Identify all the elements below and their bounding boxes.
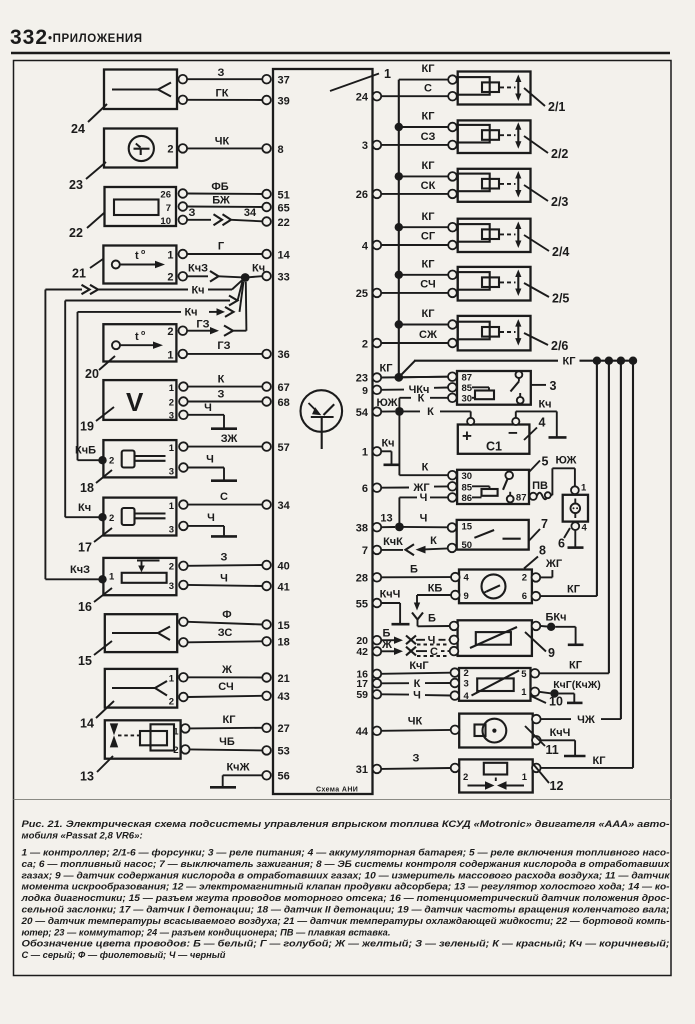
svg-text:Б: Б <box>428 613 436 625</box>
svg-text:1: 1 <box>167 249 173 261</box>
svg-text:Рис. 21. Электрическая схема п: Рис. 21. Электрическая схема подсистемы … <box>22 819 670 830</box>
svg-text:3: 3 <box>464 679 469 690</box>
label 5 with leader <box>530 455 549 472</box>
svg-text:С1: С1 <box>486 440 502 454</box>
svg-text:К: К <box>418 393 425 405</box>
engine harness connector 15 box <box>105 614 177 652</box>
svg-text:59: 59 <box>356 689 368 701</box>
svg-text:КчЗ: КчЗ <box>70 564 90 576</box>
wire 19 pin2 to U1 pin68, net З <box>188 389 262 402</box>
wire bus to 2/4 upper pin, net КГ <box>399 211 448 227</box>
ref 23 with leader <box>69 162 106 192</box>
svg-text:19: 19 <box>80 420 94 434</box>
svg-text:Кч: Кч <box>191 284 204 296</box>
ref 17 with leader <box>78 528 112 555</box>
svg-text:6: 6 <box>362 483 368 495</box>
svg-text:2: 2 <box>173 745 178 756</box>
label 3 with leader <box>531 379 557 393</box>
19 pins <box>179 382 188 419</box>
svg-text:1: 1 <box>169 501 175 512</box>
svg-text:1: 1 <box>581 483 587 494</box>
svg-text:28: 28 <box>356 573 368 585</box>
ref 20 with leader <box>85 356 115 381</box>
svg-text:24: 24 <box>71 122 85 136</box>
svg-text:37: 37 <box>278 75 290 87</box>
wire bus to 2/5 upper pin, net КГ <box>399 259 448 275</box>
svg-text:18: 18 <box>278 637 290 649</box>
svg-text:16: 16 <box>78 600 92 614</box>
svg-text:+: + <box>462 427 472 446</box>
svg-text:33: 33 <box>278 271 290 283</box>
wire node to КГ rail riser <box>399 361 415 378</box>
wire bus to 2/2 upper pin, net КГ <box>399 111 448 128</box>
15 pins <box>179 618 188 647</box>
svg-text:14: 14 <box>80 717 94 731</box>
svg-text:Ф: Ф <box>222 609 231 621</box>
svg-text:Ч: Ч <box>413 689 421 701</box>
svg-text:КГ: КГ <box>422 111 436 123</box>
16 right pins <box>179 562 188 590</box>
wire 15 to U1 pin15, net Ф <box>188 609 262 625</box>
wire 19 pin3 to ground, net Ч <box>188 402 224 428</box>
svg-text:Кч: Кч <box>381 438 394 450</box>
svg-text:2: 2 <box>464 668 469 679</box>
svg-text:ГЗ: ГЗ <box>217 340 230 352</box>
page header <box>10 26 670 53</box>
wire 14 pin2 to U1 pin43, net СЧ <box>188 681 262 697</box>
svg-text:СЖ: СЖ <box>419 329 437 341</box>
label 4 with leader <box>524 416 546 441</box>
transistor symbol inside controller <box>301 390 343 449</box>
svg-text:2: 2 <box>109 456 114 467</box>
label 2/5 with leader <box>524 283 569 306</box>
17 right pins <box>179 500 188 530</box>
svg-text:2: 2 <box>169 696 174 707</box>
svg-text:7: 7 <box>362 545 368 557</box>
svg-text:2: 2 <box>169 562 174 573</box>
wire U1 pin25 to 2/5 lower pin, net СЧ <box>381 279 448 293</box>
air flow sensor 10 box <box>451 668 540 702</box>
svg-text:КГ: КГ <box>422 259 436 271</box>
on-board computer 22 box <box>105 187 177 227</box>
wire U1 pin20 to sensor9, net Б/Ч crossover <box>381 628 450 647</box>
wire unit8 pin2 stub, net ЖГ <box>540 558 563 577</box>
svg-text:3: 3 <box>362 140 368 152</box>
svg-text:З: З <box>189 207 196 219</box>
wire relay5 pin86 to node 13, net Ч <box>399 492 448 523</box>
svg-text:1: 1 <box>522 772 528 783</box>
wire U1 pin55 to ground, net КчЧ <box>380 589 401 624</box>
svg-text:Г: Г <box>218 241 225 253</box>
ground for pump <box>568 546 584 549</box>
svg-text:56: 56 <box>278 771 290 783</box>
svg-text:27: 27 <box>278 723 290 735</box>
svg-text:Ч: Ч <box>206 454 214 466</box>
label 10 with leader <box>531 695 563 709</box>
junction dot bus/2-4 <box>395 223 403 231</box>
node КчБ at 18 pin2 <box>75 445 107 465</box>
wire 17 pin1 to U1 pin34, net С <box>188 491 262 505</box>
svg-text:лодка диагностики; 15 — разъем: лодка диагностики; 15 — разъем жгута про… <box>20 893 669 903</box>
svg-text:21: 21 <box>278 673 290 685</box>
svg-text:41: 41 <box>278 581 290 593</box>
label 11 with leader <box>525 726 559 757</box>
wire 24 pin2 to U1 pin39, net ГК <box>188 88 263 101</box>
svg-text:СЧ: СЧ <box>420 279 435 291</box>
injector 2/3 <box>448 169 530 202</box>
svg-text:Кч: Кч <box>184 307 197 319</box>
svg-text:КГ: КГ <box>569 660 583 672</box>
svg-text:9: 9 <box>464 591 469 602</box>
injector supply bus КГ vertical <box>398 80 400 378</box>
svg-text:V: V <box>126 387 144 417</box>
wire U1 pin42 to sensor9, net Ж/С crossover <box>381 639 450 658</box>
wire bus to 2/1 upper pin, net КГ <box>399 63 448 80</box>
ignition module 23 box <box>104 129 177 168</box>
svg-text:ЗС: ЗС <box>218 627 233 639</box>
ref 19 with leader <box>80 407 114 434</box>
svg-text:КГ: КГ <box>422 160 436 172</box>
svg-text:85: 85 <box>462 482 473 493</box>
junction dot bus/2-3 <box>395 172 403 180</box>
svg-text:1 — контроллер; 2/1-6 — форсун: 1 — контроллер; 2/1-6 — форсунки; 3 — ре… <box>22 848 670 858</box>
svg-text:са; 6 — топливный насос; 7 — в: са; 6 — топливный насос; 7 — выключатель… <box>22 859 671 869</box>
bus riser A to unit 8 <box>596 361 598 596</box>
svg-text:БКч: БКч <box>545 612 566 624</box>
wire 22 pin10 to U1 pin22, net 3, connector 34 <box>188 207 263 225</box>
svg-text:ЗЖ: ЗЖ <box>221 433 238 445</box>
svg-text:5: 5 <box>521 669 527 680</box>
purge valve 12 box <box>451 759 541 792</box>
svg-text:1: 1 <box>169 443 175 454</box>
ground for sensor10 <box>567 702 583 705</box>
wire U1 pin31 to valve12, net З <box>381 753 451 769</box>
oxygen control unit 8 box <box>451 570 540 604</box>
controller label 1 with leader <box>330 67 391 91</box>
svg-text:67: 67 <box>278 382 290 394</box>
svg-text:КГ: КГ <box>563 356 577 368</box>
svg-text:2: 2 <box>167 144 173 156</box>
svg-text:СГ: СГ <box>421 231 436 243</box>
svg-text:Б: Б <box>410 564 418 576</box>
crankshaft sensor 19 box <box>103 380 176 422</box>
svg-text:2: 2 <box>167 271 173 283</box>
svg-text:10: 10 <box>160 216 171 227</box>
wire U1 pin56 to ground, net КчЖ <box>223 762 262 787</box>
svg-text:ГК: ГК <box>216 88 229 100</box>
svg-text:С: С <box>424 83 432 95</box>
svg-text:42: 42 <box>356 646 368 658</box>
13 pins <box>181 724 190 754</box>
svg-text:КчЧ: КчЧ <box>380 589 401 601</box>
svg-text:ЖГ: ЖГ <box>545 558 563 570</box>
wire U1 pin24 to 2/1 lower pin, net С <box>381 83 448 97</box>
svg-text:З: З <box>218 67 225 79</box>
svg-text:2/4: 2/4 <box>552 245 569 259</box>
coolant temp sensor 21 box <box>103 246 176 284</box>
svg-text:3: 3 <box>169 581 174 592</box>
svg-text:Кч: Кч <box>78 502 91 514</box>
wire unit8 pin6 to bus riser A, net КГ <box>540 584 597 597</box>
svg-text:СЧ: СЧ <box>218 681 233 693</box>
knock sensor 18 box <box>103 440 176 477</box>
svg-text:86: 86 <box>462 493 473 504</box>
svg-text:30: 30 <box>462 471 473 482</box>
svg-text:Ч: Ч <box>420 492 428 504</box>
svg-text:53: 53 <box>278 746 290 758</box>
wire node to relay3 pin87 <box>399 376 448 379</box>
ref 13 with leader <box>80 756 113 784</box>
svg-text:1: 1 <box>521 687 527 698</box>
wire 13 pin2 to U1 pin53, net ЧБ <box>190 736 262 750</box>
svg-text:44: 44 <box>356 726 369 738</box>
label 12 with leader <box>534 765 563 793</box>
svg-text:1: 1 <box>362 447 368 459</box>
fuse ПВ symbol <box>537 492 551 499</box>
wire 14 pin1 to U1 pin21, net Ж <box>188 664 262 678</box>
wire U1 pin2 to 2/6 lower pin, net СЖ <box>381 329 448 343</box>
svg-text:4: 4 <box>464 691 470 702</box>
fuel pump 6 <box>563 483 588 534</box>
svg-text:6: 6 <box>522 591 527 602</box>
svg-text:85: 85 <box>462 383 473 394</box>
caption title <box>22 819 670 842</box>
svg-text:36: 36 <box>278 349 290 361</box>
svg-text:22: 22 <box>278 217 290 229</box>
svg-text:1: 1 <box>169 673 175 684</box>
ground for sensor11 <box>564 755 586 758</box>
svg-text:Ч: Ч <box>207 512 215 524</box>
svg-text:ЧК: ЧК <box>408 716 423 728</box>
bus riser B to sensor 10 <box>608 361 610 674</box>
wire U1 pin44 to sensor11, net ЧК <box>381 716 451 731</box>
svg-text:18: 18 <box>80 481 94 495</box>
injector 2/2 <box>448 120 530 153</box>
svg-text:ПВ: ПВ <box>532 480 548 492</box>
injector 2/6 <box>448 316 530 351</box>
svg-text:Ж: Ж <box>221 664 232 676</box>
caption list <box>20 848 670 961</box>
svg-text:момента искрообразования; 12 —: момента искрообразования; 12 — электрома… <box>22 882 670 892</box>
svg-text:2: 2 <box>169 398 174 409</box>
ignition switch 7 box <box>448 520 529 552</box>
23 pin <box>179 144 188 153</box>
oxygen sensor 9 box <box>450 620 541 656</box>
ref 24 with leader <box>71 104 107 136</box>
node КчЗ at 16 pin1 <box>70 564 107 584</box>
svg-text:2: 2 <box>109 513 114 524</box>
svg-text:КГ: КГ <box>380 363 394 375</box>
svg-text:СК: СК <box>421 180 436 192</box>
wire unit8 pin9, net КБ with arrow <box>414 583 451 611</box>
svg-text:3: 3 <box>550 379 557 393</box>
wire 22 pin26 to U1 pin51, net ФБ <box>188 181 263 194</box>
svg-text:КчБ: КчБ <box>75 445 96 457</box>
divider line above caption <box>14 799 672 801</box>
svg-text:3: 3 <box>169 467 174 478</box>
wire U1 pin17 to sensor10 pin3, net К <box>381 678 450 690</box>
wire node ЮЖ up to relay3 pin30, net К <box>399 393 448 412</box>
svg-text:З: З <box>221 552 228 564</box>
label 2/4 with leader <box>524 235 569 259</box>
svg-text:30: 30 <box>462 394 473 405</box>
svg-text:24: 24 <box>356 92 369 104</box>
ground for БКч <box>568 643 584 646</box>
svg-text:31: 31 <box>356 764 368 776</box>
svg-text:o: o <box>141 330 145 337</box>
svg-text:23: 23 <box>356 373 368 385</box>
svg-text:54: 54 <box>356 407 369 419</box>
14 pins <box>179 673 188 701</box>
ref 14 with leader <box>80 701 114 731</box>
svg-text:14: 14 <box>278 249 291 261</box>
wire 20 pin1 to U1 pin36, net ГЗ <box>188 340 263 354</box>
wire U1 pin54 to node ЮЖ <box>381 410 395 412</box>
ground for 19 <box>211 427 237 430</box>
svg-text:КГ: КГ <box>422 308 436 320</box>
svg-text:С — серый; Ф — фиолетовый; Ч —: С — серый; Ф — фиолетовый; Ч — черный <box>22 950 226 960</box>
ground for pin 56 <box>210 786 236 789</box>
junction dot bus/2-6 <box>395 320 403 328</box>
svg-text:4: 4 <box>539 416 546 430</box>
wire U1 pin3 to 2/2 lower pin, net СЗ <box>381 131 448 145</box>
label 8 with leader <box>524 544 546 569</box>
wire 16 pin3 to U1 pin41, net Ч <box>188 573 262 587</box>
svg-text:2/3: 2/3 <box>551 195 568 209</box>
svg-text:КчЧ: КчЧ <box>550 727 571 739</box>
svg-text:332: 332 <box>10 26 48 49</box>
svg-text:55: 55 <box>356 598 368 610</box>
bus riser D to valve 12 <box>632 361 634 768</box>
svg-text:15: 15 <box>462 522 473 533</box>
ground for pin 1 <box>384 463 401 466</box>
svg-text:ЮЖ: ЮЖ <box>376 397 397 409</box>
svg-text:К: К <box>430 535 437 547</box>
svg-text:3: 3 <box>169 525 174 536</box>
svg-text:КчГ(КчЖ): КчГ(КчЖ) <box>553 679 600 691</box>
wire 13 pin1 to U1 pin27, net КГ <box>190 714 262 728</box>
svg-text:2/2: 2/2 <box>551 147 568 161</box>
wire node Кч fan line to sensor 16, net Кч <box>45 280 242 579</box>
wire 21 pin1 to U1 pin14, net Г <box>188 241 263 255</box>
wire sensor10 pin1 to ground, net КчГ(КчЖ) <box>539 679 601 702</box>
svg-text:o: o <box>141 249 145 256</box>
22 pins <box>179 189 188 224</box>
svg-text:87: 87 <box>516 492 527 503</box>
svg-text:З: З <box>218 389 225 401</box>
wire node Кч to U1 pin33 <box>250 276 263 277</box>
wire sensor11 top to bus riser C, net ЧЖ <box>541 714 621 726</box>
injector 2/5 <box>448 267 530 301</box>
wire 24 pin1 to U1 pin37, net 3 <box>188 67 263 79</box>
svg-text:Ч: Ч <box>204 402 212 414</box>
ground for pin 55 <box>392 623 410 626</box>
label 7 with leader <box>529 517 548 541</box>
svg-text:1: 1 <box>169 383 175 394</box>
connector X24 (air conditioner) box <box>104 70 177 110</box>
throttle position sensor 16 box <box>103 558 176 595</box>
svg-text:КГ: КГ <box>223 714 237 726</box>
svg-text:51: 51 <box>278 189 290 201</box>
svg-text:КГ: КГ <box>422 63 436 75</box>
svg-text:11: 11 <box>546 743 559 757</box>
svg-text:КГ: КГ <box>422 211 436 223</box>
main relay 3 box <box>448 371 531 405</box>
injector 2/4 <box>448 219 530 252</box>
ground for 18 <box>211 479 237 482</box>
node 23/КГ junction dot <box>394 373 403 382</box>
svg-text:ЧК: ЧК <box>215 136 230 148</box>
wire node Кч to air temp sensor 20 pin2, net ГЗ <box>188 282 247 336</box>
svg-text:7: 7 <box>166 203 171 214</box>
wire battery minus to ground, net Кч <box>516 399 557 437</box>
label 2/6 with leader <box>524 333 568 353</box>
wire U1 pin38 to switch 7 pin15, net Ч <box>381 513 448 528</box>
connector fork to sensor 9, net Б <box>412 613 450 627</box>
svg-text:6: 6 <box>558 537 565 551</box>
fuel pump relay 5 box <box>448 470 537 504</box>
wire node ЮЖ down to relay5 pin30, net К <box>399 411 448 475</box>
wire U1 pin7 to switch 7 pin50, net КчК / К <box>381 535 448 555</box>
svg-text:Кч: Кч <box>538 399 551 411</box>
svg-text:ютер; 23 — коммутатор; 24 — ра: ютер; 23 — коммутатор; 24 — разъем конди… <box>22 927 391 937</box>
svg-text:сельной заслонки; 17 — датчик: сельной заслонки; 17 — датчик I детонаци… <box>22 904 670 914</box>
svg-text:газах; 9 — датчик содержания к: газах; 9 — датчик содержания кислорода в… <box>22 870 671 880</box>
wire 23 pin2 to U1 pin8, net ЧК <box>188 136 263 149</box>
X24 pins <box>179 75 188 104</box>
svg-text:2/6: 2/6 <box>551 339 568 353</box>
controller U1 (1) box <box>273 69 373 794</box>
junction dot bus/2-5 <box>395 271 403 279</box>
svg-text:20: 20 <box>85 367 99 381</box>
svg-text:8: 8 <box>278 144 284 156</box>
wire 17 pin3 to ground, net Ч <box>188 512 224 536</box>
wire U1 pin28 to unit8 pin4, net Б <box>381 564 451 578</box>
svg-text:9: 9 <box>362 385 368 397</box>
knock sensor 17 box <box>103 498 176 536</box>
wire U1 pin6 to relay5 pin85, net ЖГ <box>381 482 448 494</box>
svg-text:•ПРИЛОЖЕНИЯ: •ПРИЛОЖЕНИЯ <box>48 33 143 45</box>
20 pins <box>179 326 188 358</box>
bus riser C to sensor 11 <box>620 361 622 719</box>
wire 18 pin3 to ground, net Ч <box>188 454 224 481</box>
svg-text:38: 38 <box>356 523 368 535</box>
svg-text:мобиля «Passat 2,8 VR6»:: мобиля «Passat 2,8 VR6»: <box>22 831 143 842</box>
diagnostic connector 14 box <box>105 669 177 708</box>
wire bus to 2/6 upper pin, net КГ <box>399 308 448 325</box>
svg-text:ЧБ: ЧБ <box>219 736 235 748</box>
ref 22 with leader <box>69 213 104 240</box>
label 2/2 with leader <box>524 136 568 161</box>
ignition timing sensor 11 box <box>451 714 541 748</box>
wire pump pin4 to ground <box>574 530 576 547</box>
controller right pin numbers <box>356 92 369 777</box>
controller left pin numbers <box>278 75 291 783</box>
svg-text:57: 57 <box>278 442 290 454</box>
svg-text:К: К <box>414 678 421 690</box>
svg-text:2: 2 <box>463 772 468 783</box>
svg-text:5: 5 <box>542 455 549 469</box>
wire 16 pin2 to U1 pin40, net З <box>188 552 262 566</box>
svg-text:26: 26 <box>160 190 171 201</box>
18 right pins <box>179 442 188 472</box>
svg-text:КчГ: КчГ <box>409 660 429 672</box>
svg-text:9: 9 <box>548 646 555 660</box>
wire sensor10 pin5 to bus riser B, net КГ <box>539 660 609 674</box>
svg-text:КГ: КГ <box>567 584 581 596</box>
svg-text:Ч: Ч <box>420 513 428 525</box>
svg-text:20 — датчик температуры всасыв: 20 — датчик температуры всасываемого воз… <box>20 916 669 926</box>
